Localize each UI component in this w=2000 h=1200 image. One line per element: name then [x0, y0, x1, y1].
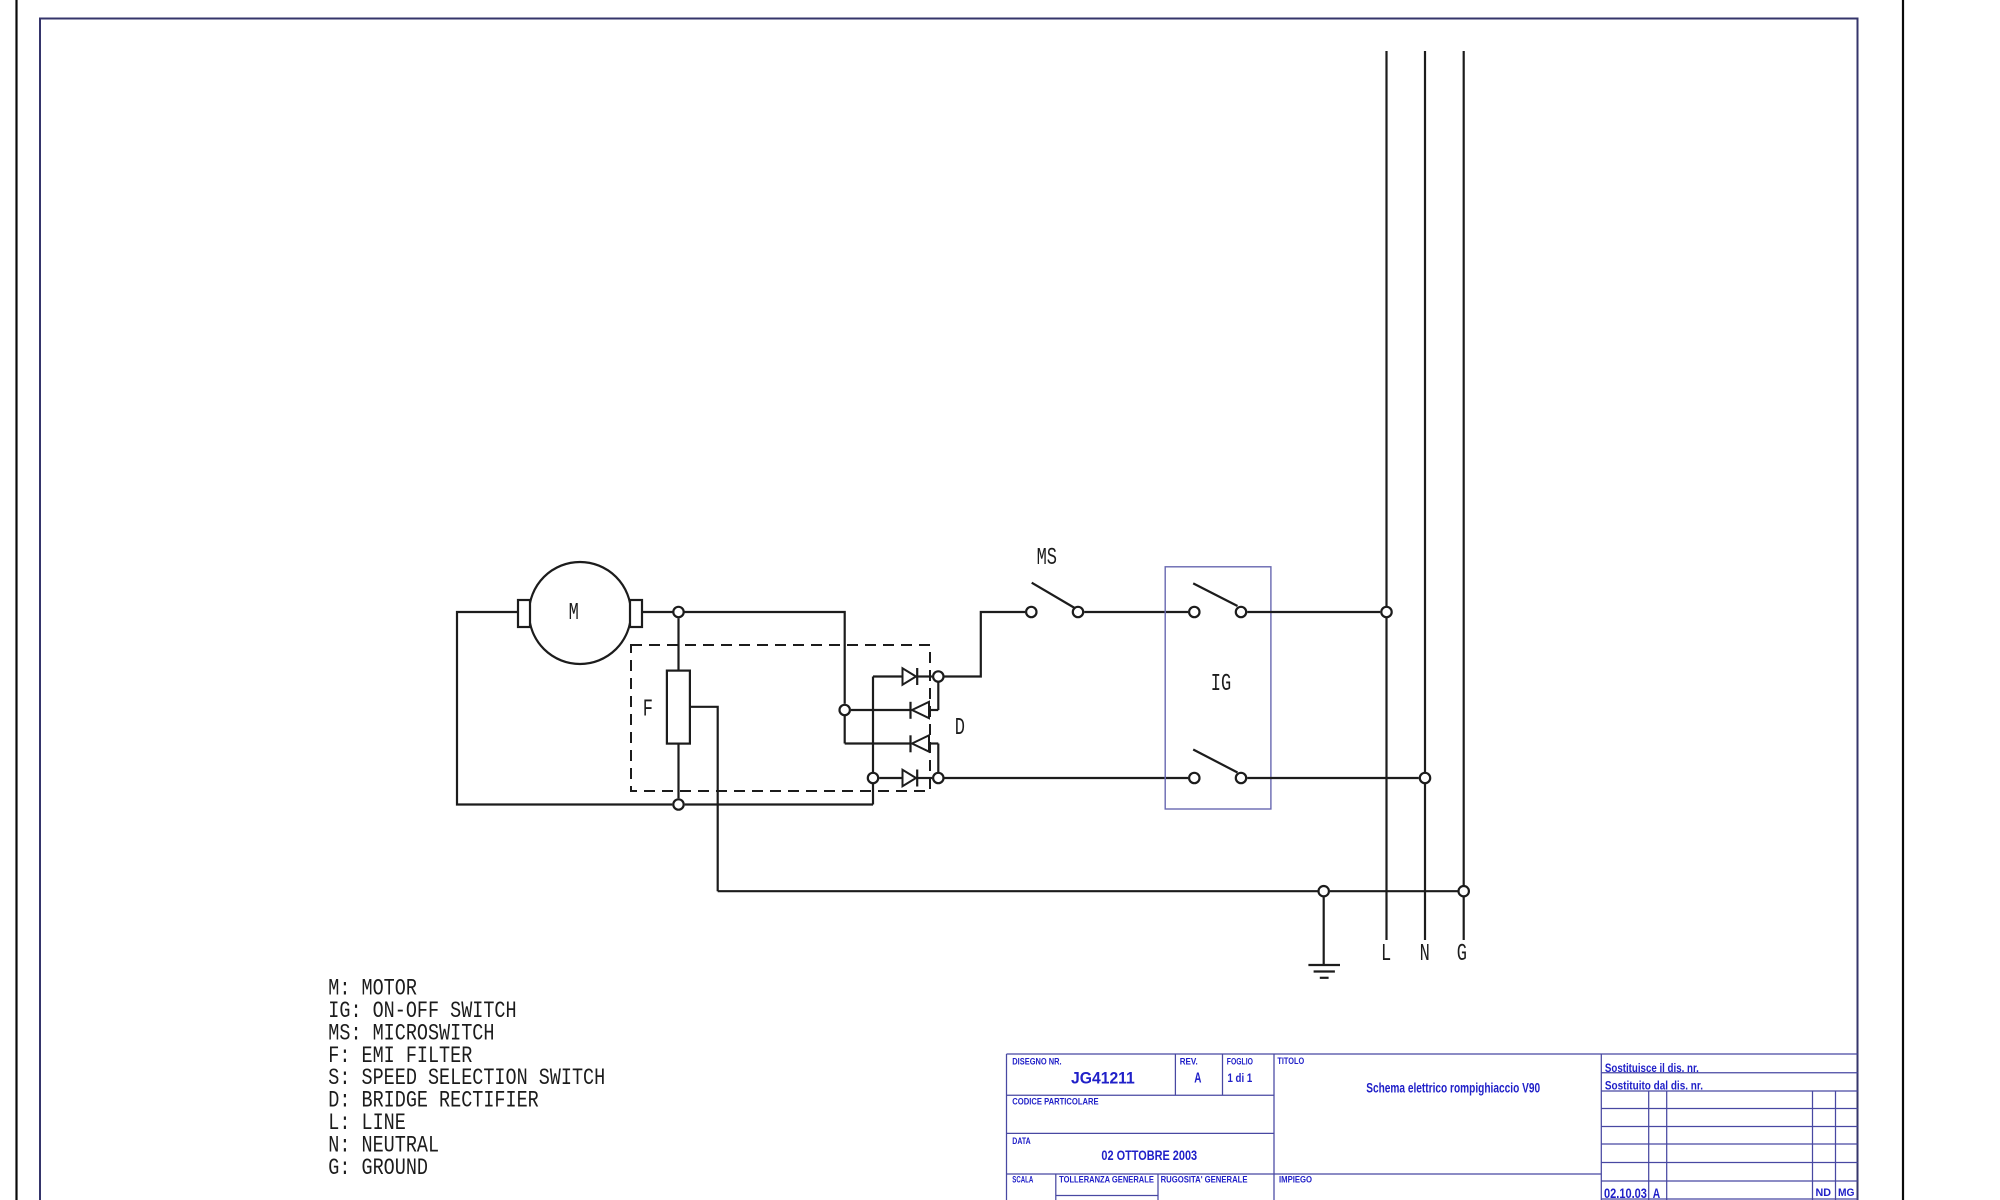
ground bus wire right [1330, 890, 1458, 892]
svg-text:IG: IG [1211, 672, 1231, 698]
svg-text:SCALA: SCALA [1012, 1175, 1033, 1185]
title block grid [1007, 1054, 1858, 1200]
node bridge input [840, 705, 850, 715]
node D1 out [933, 671, 943, 681]
scan edge line left [15, 0, 17, 1200]
diode D3 row [845, 742, 911, 744]
svg-text:Sostituisce il dis. nr.: Sostituisce il dis. nr. [1605, 1063, 1699, 1075]
IG bottom right contact [1236, 773, 1246, 783]
svg-text:DATA: DATA [1012, 1136, 1031, 1146]
IG top left contact [1189, 607, 1199, 617]
ground bus wire [718, 890, 1318, 892]
svg-text:M: M [569, 600, 579, 626]
bridge mid bus [844, 716, 846, 744]
svg-text:F: F [643, 697, 653, 723]
svg-text:TITOLO: TITOLO [1277, 1056, 1304, 1066]
supply line L [1385, 51, 1387, 940]
supply line N [1424, 51, 1426, 940]
motor left terminal [518, 600, 530, 627]
svg-text:Schema elettrico rompighiaccio: Schema elettrico rompighiaccio V90 [1366, 1081, 1540, 1096]
node D4 out [933, 773, 943, 783]
node ground tap [1319, 886, 1329, 896]
svg-text:MS: MS [1037, 546, 1057, 572]
wire D1 node to MS level [945, 612, 1026, 677]
legend text block [328, 977, 605, 1182]
motor M circle [529, 562, 631, 664]
bridge right bus upper [937, 677, 939, 711]
svg-text:Sostituito dal dis. nr.: Sostituito dal dis. nr. [1605, 1081, 1703, 1093]
IG top lever [1193, 583, 1237, 606]
EMI filter dashed box F [631, 645, 930, 791]
svg-text:IMPIEGO: IMPIEGO [1279, 1175, 1312, 1185]
IG bottom lever [1193, 750, 1237, 773]
wire motor right to bridge input [642, 612, 845, 704]
svg-text:1 di 1: 1 di 1 [1228, 1071, 1253, 1085]
svg-text:RUGOSITA' GENERALE: RUGOSITA' GENERALE [1161, 1175, 1248, 1185]
svg-text:G: G [1457, 942, 1467, 968]
svg-text:G: GROUND: G: GROUND [328, 1156, 428, 1181]
node N [1420, 773, 1430, 783]
node L [1381, 607, 1391, 617]
wire node to filter resistor [677, 618, 679, 670]
wire MS to IG [1084, 611, 1188, 613]
scan edge line right [1902, 0, 1904, 1200]
svg-text:MG: MG [1838, 1187, 1855, 1199]
svg-text:D: D [955, 716, 965, 742]
node motor right [673, 607, 683, 617]
wire IG top to line L [1247, 611, 1380, 613]
bridge right bus lower [937, 744, 939, 779]
svg-text:ND: ND [1816, 1187, 1832, 1199]
ground symbol stem [1323, 897, 1325, 965]
svg-text:FOGLIO: FOGLIO [1227, 1057, 1253, 1067]
ground symbol bars [1308, 964, 1340, 966]
svg-text:TOLLERANZA GENERALE: TOLLERANZA GENERALE [1059, 1175, 1154, 1185]
lower bus wire continue [685, 803, 873, 805]
bridge left bus [872, 677, 874, 805]
on-off switch IG box [1165, 567, 1271, 809]
wire D4 node to IG lower [945, 777, 1189, 779]
svg-text:02 OTTOBRE 2003: 02 OTTOBRE 2003 [1101, 1148, 1197, 1163]
IG bottom left contact [1189, 773, 1199, 783]
svg-text:REV.: REV. [1180, 1057, 1198, 1067]
MS right contact [1073, 607, 1083, 617]
wire motor left to left bus [457, 612, 672, 805]
diode D4 row [879, 777, 902, 779]
supply line G [1463, 51, 1465, 940]
MS left contact [1026, 607, 1036, 617]
svg-text:N: N [1420, 942, 1430, 968]
MS lever [1032, 583, 1075, 608]
filter resistor body [667, 671, 690, 744]
wire IG bottom to line N [1247, 777, 1419, 779]
svg-text:02.10.03: 02.10.03 [1604, 1186, 1647, 1200]
node filter bottom [673, 799, 683, 809]
node bridge left lower [868, 773, 878, 783]
svg-text:JG41211: JG41211 [1071, 1069, 1135, 1087]
svg-text:CODICE PARTICOLARE: CODICE PARTICOLARE [1012, 1097, 1098, 1107]
filter right tap wire [690, 707, 718, 891]
svg-text:A: A [1653, 1186, 1660, 1200]
resistor bottom stem [677, 744, 679, 799]
svg-text:DISEGNO NR.: DISEGNO NR. [1012, 1057, 1061, 1067]
svg-text:L: L [1381, 942, 1391, 968]
svg-text:A: A [1194, 1070, 1201, 1087]
diode D1 row [873, 675, 903, 677]
diode D2 row [851, 709, 911, 711]
IG top right contact [1236, 607, 1246, 617]
motor right terminal [630, 600, 642, 627]
node G line [1459, 886, 1469, 896]
